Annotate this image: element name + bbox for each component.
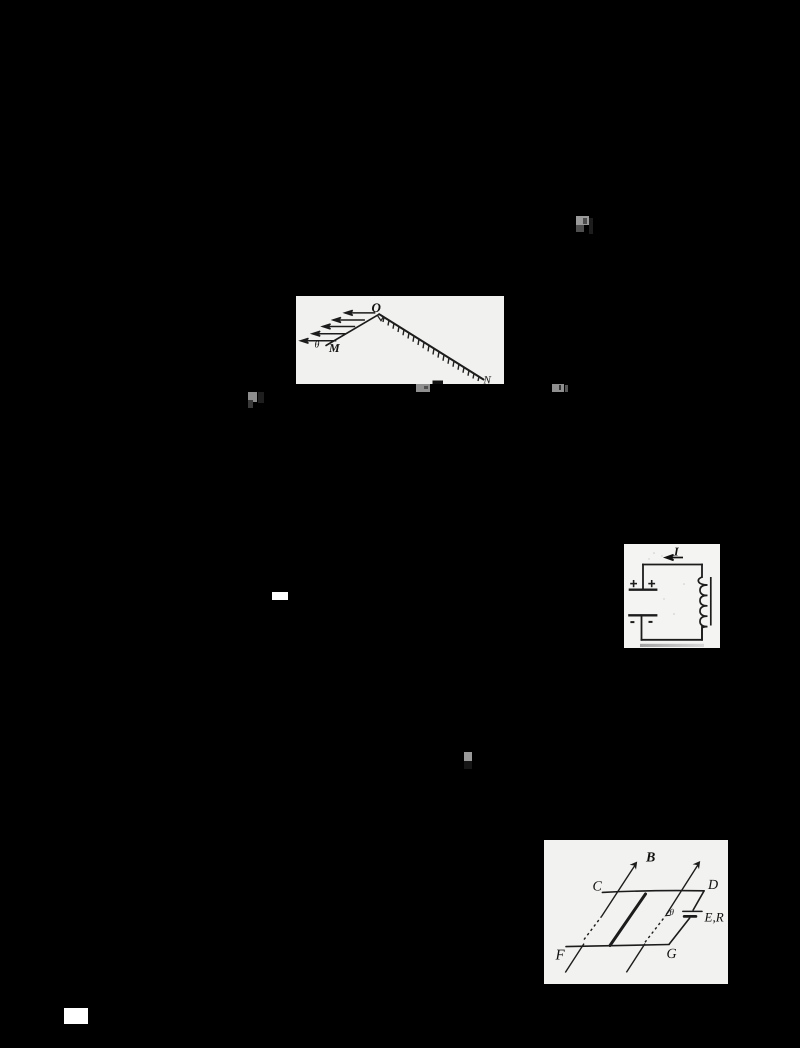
- white rect (272,592): [272, 592, 288, 600]
- black bar bottom: [433, 381, 444, 385]
- svg-text:B: B: [645, 851, 655, 866]
- blob D (552,384): [552, 384, 564, 392]
- bottom wire: [642, 639, 703, 641]
- conducting bar: [610, 894, 646, 946]
- left field line: [565, 865, 635, 973]
- top wire: [643, 564, 702, 566]
- D to battery wire: [693, 891, 704, 910]
- hatching on ON: [383, 317, 479, 381]
- top rail CD: [602, 891, 704, 893]
- svg-text:E,R: E,R: [704, 910, 724, 925]
- bottom rail FG: [566, 945, 669, 947]
- right field line: [626, 864, 698, 972]
- blob B (248,392): [248, 392, 257, 402]
- gray blob (464,752): [464, 752, 472, 761]
- left incline OM: [326, 314, 379, 345]
- rails figure CDGF: [544, 840, 728, 984]
- svg-text:C: C: [593, 880, 603, 895]
- svg-text:θ: θ: [670, 907, 675, 917]
- svg-text:O: O: [372, 300, 382, 315]
- angle mark: [666, 910, 671, 916]
- right incline ON: [379, 314, 483, 379]
- svg-text:G: G: [667, 947, 677, 962]
- svg-text:M: M: [328, 341, 340, 355]
- svg-text:D: D: [707, 878, 718, 893]
- labels: [315, 300, 492, 387]
- circuit figure LC: [624, 544, 720, 648]
- battery short plate: [684, 915, 696, 918]
- blob A (576,216): [576, 216, 589, 225]
- plus signs: [630, 580, 655, 587]
- svg-text:N: N: [483, 375, 492, 385]
- svg-text:θ: θ: [315, 340, 320, 351]
- right wire bottom: [701, 627, 703, 640]
- white rect (64,1008): [64, 1008, 88, 1024]
- left wire to capacitor: [642, 565, 644, 590]
- labels: [555, 851, 724, 964]
- figure: incline M-O-N: [296, 296, 504, 384]
- blob C (416,384): [416, 384, 430, 392]
- capacitor top plate: [630, 589, 656, 591]
- current arrow: [666, 555, 684, 561]
- battery long plate: [683, 910, 702, 912]
- minus signs: [630, 621, 652, 623]
- small angle mark at O: [378, 316, 384, 321]
- svg-text:F: F: [555, 948, 566, 964]
- battery to G wire: [669, 918, 690, 944]
- lower wire: [641, 615, 643, 640]
- arrows (field) pointing left: [301, 310, 376, 343]
- right wire top: [701, 565, 703, 578]
- capacitor bottom plate: [629, 614, 656, 616]
- core bar: [710, 577, 712, 626]
- coil: [698, 577, 707, 640]
